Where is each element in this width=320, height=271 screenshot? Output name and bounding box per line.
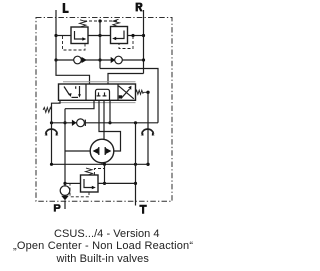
caption line 1 xyxy=(54,229,160,240)
wire: connector return to relief-out xyxy=(104,164,106,183)
shock relief valve A body xyxy=(71,27,88,44)
spool position divider 2 xyxy=(117,84,119,100)
node: T / relief-out junction xyxy=(134,182,137,185)
shock relief valve A pilot line (dashed) xyxy=(63,36,86,50)
centering spring left xyxy=(43,107,51,112)
inlet relief drain (dashed) xyxy=(95,169,105,176)
gerotor triangles xyxy=(93,147,112,155)
bypass check valve xyxy=(72,119,85,127)
node: tank/check-gallery junction xyxy=(98,58,101,61)
caption line 2 xyxy=(13,241,193,252)
wire: spool tank port drop xyxy=(109,100,111,123)
port label L xyxy=(63,3,69,13)
spool position divider 1 xyxy=(85,84,87,100)
node: drain junction xyxy=(98,19,101,22)
shock relief valve B pilot line (dashed) xyxy=(119,36,133,49)
node: P riser / inlet relief tap xyxy=(63,182,66,185)
wire: gerotor bottom stub xyxy=(101,163,103,165)
node: spring link to return line xyxy=(146,163,149,166)
rotary link arc left xyxy=(45,129,59,136)
wire: relief gallery y=35.5 xyxy=(56,35,144,37)
node: R-relief junction xyxy=(142,34,145,37)
wire: bypass check line y=122.8 xyxy=(52,122,159,124)
wire: anti-cavitation gallery y=60 xyxy=(56,59,144,61)
wire: spool port to gerotor top xyxy=(103,100,105,139)
spool centre open-centre cup xyxy=(96,89,110,100)
spool right position crossed arrows xyxy=(119,86,134,99)
wire: inlet relief output to T xyxy=(98,182,136,184)
node: left link line joins check line xyxy=(50,121,53,124)
enclosure dash-dot border xyxy=(36,18,172,202)
wire: P riser xyxy=(64,109,66,187)
node: return corner xyxy=(50,163,53,166)
shock relief valve B body xyxy=(111,27,128,44)
wire: gerotor left to P riser xyxy=(65,150,90,152)
node: tank port on bypass line xyxy=(108,121,111,124)
inlet relief pilot (dashed) xyxy=(70,184,89,197)
anti-cavitation check valve A xyxy=(74,56,87,64)
node: T line on check line xyxy=(134,121,137,124)
wire: spool port to gerotor right loop xyxy=(99,100,121,151)
wire: return line y=164.3 xyxy=(52,163,149,165)
node: spring link junction xyxy=(146,91,149,94)
wire: left mechanical link xyxy=(52,100,61,164)
wire: tank bypass around valve xyxy=(100,69,158,123)
port label T xyxy=(139,205,146,214)
wire: L hook into valve xyxy=(56,60,90,84)
rotary link arc right xyxy=(141,129,155,136)
inlet relief spring xyxy=(86,168,93,175)
spool return spring xyxy=(136,90,148,94)
wire: tank riser between reliefs xyxy=(99,21,101,69)
node: connector bottom xyxy=(103,182,106,185)
inlet relief internal arrow xyxy=(84,179,96,189)
node: pilot tap B xyxy=(131,34,134,37)
directional spool valve outer body xyxy=(59,84,136,100)
shock relief valve A internal arrow xyxy=(75,31,87,41)
gerotor metering unit xyxy=(90,139,114,163)
caption line 3 xyxy=(57,254,149,265)
inlet check valve on P xyxy=(60,186,70,201)
node: tank drop on relief gallery xyxy=(98,34,101,37)
wire: R hook into valve xyxy=(108,74,144,85)
wire: P jog from spool bottom xyxy=(65,100,94,108)
node: L-relief junction xyxy=(54,34,57,37)
wire: T line xyxy=(135,123,137,206)
wire: spring link down xyxy=(147,92,149,164)
wire: inlet relief input xyxy=(65,182,81,184)
node: return to relief-out connector top xyxy=(103,163,106,166)
anti-cavitation check valve B xyxy=(111,56,123,64)
shock relief valve B internal arrow xyxy=(112,31,124,41)
node: return / T crossing xyxy=(134,163,137,166)
node: R-check junction xyxy=(142,58,145,61)
spool hatch shading top/bottom xyxy=(59,82,136,103)
node: L-check junction xyxy=(54,58,57,61)
wire: spring drain (dashed) to tank xyxy=(84,20,118,22)
shock relief valve A spring xyxy=(80,20,87,27)
spool left position arrows xyxy=(64,86,81,98)
port label P xyxy=(54,204,61,211)
wire: P port stub xyxy=(64,200,66,209)
wire: L port line xyxy=(55,10,57,60)
inlet relief valve body xyxy=(81,175,99,192)
node: P riser / bypass-check line xyxy=(63,121,66,124)
port label R xyxy=(136,3,143,12)
wire: R port line xyxy=(143,10,145,74)
shock relief valve B spring xyxy=(113,19,120,26)
